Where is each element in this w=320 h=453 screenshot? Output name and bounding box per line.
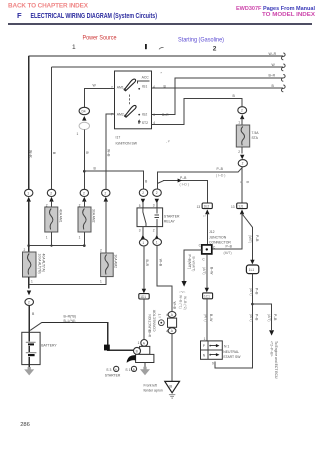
svg-text:1: 1 [77,132,79,136]
AM2 feed column [106,114,115,189]
svg-text:STARTER: STARTER [105,374,121,378]
svg-text:NEUTRAL: NEUTRAL [223,350,239,354]
battery feed wire down [28,284,30,288]
svg-text:<*2>: <*2> [179,290,186,294]
connector arrow into circle [240,115,244,120]
connector arrows up below circles [141,199,145,204]
wire end squiggle B-R [282,75,286,82]
svg-text:13: 13 [231,205,235,209]
svg-text:BACK TO CHAPTER INDEX: BACK TO CHAPTER INDEX [8,2,89,9]
wire to body ground [171,334,173,382]
svg-text:W–B: W–B [173,302,177,310]
connector box 1L1 [246,265,258,274]
connector arrow down [250,260,254,265]
connector box IE2 on P-B branch [202,203,212,209]
connector arrow down into circle [240,155,244,160]
pin 2 below STA fuse [241,147,243,154]
relay coil symbol [155,208,159,227]
svg-text:B–W: B–W [209,314,213,322]
fuse 30A AM2 [101,253,114,277]
svg-text:BATTERY: BATTERY [41,343,57,347]
connector arrow between pair [82,116,86,121]
connector circle 2 above STA fuse [238,107,247,114]
AM1 feed wire W to ignition [84,89,114,108]
svg-text:1: 1 [100,280,102,284]
ignition switch I17 block [115,71,152,129]
connector circle relay contact [139,189,147,196]
svg-text:2: 2 [24,248,26,252]
svg-text:B–R: B–R [269,74,276,78]
starter motor body [136,354,154,362]
svg-text:(A/T): (A/T) [267,314,271,322]
mechanical link dashed [129,95,131,106]
svg-text:( I–D ): ( I–D ) [180,183,189,187]
svg-text:1: 1 [204,337,206,341]
svg-text:ACC: ACC [142,75,150,79]
starter terminal B circle [134,347,141,354]
svg-text:1: 1 [46,236,48,240]
circle with dot junction [158,320,164,326]
wire end squiggle W [282,64,286,71]
wire B from ST2 to STA fuse [152,99,242,125]
svg-text:2: 2 [142,191,144,195]
junction dot fusebus left [27,244,30,247]
svg-text:A: A [115,367,117,371]
wire relay coil to ground net W-B [157,246,172,312]
wire STA to relay coil [238,167,243,172]
battery plates [26,341,36,343]
svg-text:IGNITION SW: IGNITION SW [116,141,138,145]
svg-text:6: 6 [153,113,155,117]
connector box IJ1 [237,203,248,209]
svg-text:TO MODEL INDEX: TO MODEL INDEX [262,12,315,18]
svg-text:1: 1 [238,121,240,125]
svg-text:3: 3 [239,181,243,183]
connector circle pair lower (faint) [79,122,89,129]
terminal arrow left branch [182,281,187,287]
pin 1 below fuse [51,232,53,246]
svg-text:JUNCTION: JUNCTION [209,235,227,239]
svg-text:2: 2 [153,229,155,233]
svg-text:B: B [136,349,138,353]
ACC contact bracket [138,81,150,84]
splice black square [104,345,110,351]
wire relay contact feed [84,171,143,189]
wire left branch A/T out [184,250,202,282]
svg-text:(M/T): (M/T) [248,235,252,243]
connector arrows down into circles [141,235,145,240]
svg-text:P–B: P–B [180,176,187,180]
battery box [22,332,40,364]
connector arrow up into circle [27,197,31,202]
pin 1 below fuse [83,232,85,246]
battery ground arrow [28,365,30,368]
contact IG2 pin 6 [138,114,140,116]
svg-text:4: 4 [166,330,168,334]
starter solenoid box [140,346,150,354]
svg-text:RELAY: RELAY [164,219,176,223]
svg-text:W–R: W–R [269,52,277,56]
svg-text:S 1: S 1 [125,368,130,372]
svg-text:STA: STA [252,136,259,140]
battery positive spine wire W-R [28,56,30,189]
junction dot ECU branch [251,303,254,306]
svg-text:fender apron: fender apron [144,388,163,392]
svg-text:(M/T): (M/T) [224,251,232,255]
fuse 7.5A STA [236,125,249,147]
connector arrow down [205,288,209,293]
connector circle 1 right [153,239,162,246]
svg-text:2: 2 [83,191,85,195]
svg-text:W–B (*2): W–B (*2) [183,296,187,310]
switch lever AM2 [125,105,136,117]
branch wire to junction J12 path [157,181,163,184]
connector arrow up [82,197,86,202]
svg-text:( I–D ): ( I–D ) [216,174,225,178]
svg-text:W–R: W–R [29,150,33,158]
svg-text:40A ALT(*A): 40A ALT(*A) [41,254,45,272]
wire A/T diagonal to IL1 [243,215,253,228]
connector circle relay coil [153,189,162,196]
svg-text:B–R(*B): B–R(*B) [64,314,76,318]
relay pin 2 bottom [156,227,158,236]
wire branch to ECU [252,304,271,330]
svg-text:5: 5 [139,204,141,208]
svg-text:2: 2 [241,109,243,113]
wire M/T branch into J12 [212,213,242,249]
svg-text:B–W: B–W [209,267,213,275]
svg-text:S 3: S 3 [106,368,111,372]
title underline rule [8,23,312,25]
wire end squiggle B [282,85,286,92]
svg-text:2: 2 [238,150,240,154]
connector arrow up [104,197,108,202]
connector arrow up below box [240,209,244,214]
svg-text:AM2: AM2 [117,113,124,117]
svg-text:Power Source: Power Source [83,36,118,42]
svg-text:ST2: ST2 [142,121,148,125]
ground triangle IB front left fender apron [165,381,180,392]
svg-text:1D1: 1D1 [140,295,146,299]
contact ST2 pin 4 [138,120,140,124]
svg-text:30A AM2: 30A AM2 [92,209,96,223]
svg-text:P–B: P–B [255,314,259,321]
wire down to relay junction [83,130,85,190]
svg-text:1C1: 1C1 [204,295,210,299]
svg-text:AM1: AM1 [117,85,124,89]
svg-text:3: 3 [139,229,141,233]
svg-text:1: 1 [202,215,206,217]
pin 1 below fuse 100A [28,277,30,284]
svg-text:P–B: P–B [273,314,277,321]
svg-text:B–R: B–R [162,113,169,117]
svg-text:1: 1 [31,280,33,284]
svg-text:I17: I17 [116,135,121,139]
wire W-R battery bus top [29,55,283,57]
svg-text:F: F [17,11,22,20]
junction connector body [168,318,177,327]
svg-text:1E2: 1E2 [204,204,210,208]
svg-text:IG2: IG2 [142,113,148,117]
connector circle 2 [102,189,110,196]
svg-text:2: 2 [242,162,244,166]
svg-text:CONNECTOR: CONNECTOR [153,309,157,331]
svg-text:1: 1 [79,236,81,240]
svg-text:JUNCTION: JUNCTION [148,314,152,332]
svg-text:100A ALT(*B): 100A ALT(*B) [37,254,41,274]
connector circle 1 on spine [25,189,33,196]
wire fuse bottom bus to AM2 fuse [29,277,106,284]
svg-text:1: 1 [156,241,158,245]
neutral start switch N1 box [201,341,223,359]
svg-text:<*2–P–B>: <*2–P–B> [269,341,273,356]
svg-text:IB: IB [169,384,172,388]
svg-text:ELECTRICAL WIRING DIAGRAM (Sys: ELECTRICAL WIRING DIAGRAM (System Circui… [31,13,158,20]
ground bars below triangle [169,395,175,399]
junction connector J12 square [202,245,212,254]
svg-text:B: B [133,367,135,371]
svg-text:Front left: Front left [144,383,157,387]
svg-text:13: 13 [197,205,201,209]
wire end squiggle W-R [282,53,286,60]
svg-text:P–B: P–B [217,167,224,171]
svg-text:3: 3 [153,204,155,208]
svg-text:, ≠: , ≠ [166,140,170,144]
junction connector IJ7 circle A upper [168,312,176,318]
wire to starter terminal A [143,299,145,340]
junction connector circle A lower [168,328,176,334]
fuse 30A AM2 (mid) [78,207,91,232]
junction dot fusebus mid [50,245,52,247]
svg-text:(A/T): (A/T) [249,288,253,296]
junction dot relay feed [83,170,86,173]
svg-text:1L1: 1L1 [249,268,255,272]
svg-text:P: P [203,344,205,348]
svg-text:2: 2 [105,191,107,195]
svg-text:W–B: W–B [158,259,162,267]
svg-text:286: 286 [20,422,30,428]
svg-text:START SW: START SW [223,355,241,359]
direction arrow on branch [178,179,182,183]
starter ground [144,363,146,368]
switch lever AM1 [124,79,135,91]
svg-text:B–L(*A): B–L(*A) [64,319,76,323]
svg-text:N 1: N 1 [224,344,229,348]
page fold mark I [145,44,147,49]
connector arrow up [49,197,53,202]
connector circle pair D4 upper [79,107,89,114]
svg-text:W–B: W–B [106,149,110,157]
wire B from IG1 [152,87,283,89]
svg-text:9: 9 [212,362,214,366]
wire down to AM2 fuse [105,201,107,254]
battery wire through [28,332,30,364]
svg-text:1J1: 1J1 [238,204,243,208]
svg-text:B–R: B–R [145,260,149,267]
wire W from AM1 fuse [52,66,284,68]
arrow to ECU [269,330,274,335]
svg-text:30A AM2: 30A AM2 [114,255,118,269]
relay contact arm [143,208,146,227]
svg-text:STARTER: STARTER [164,215,180,219]
svg-text:(A/T): (A/T) [249,314,253,322]
svg-text:40A AM1: 40A AM1 [59,209,63,223]
connector circle 2 [80,189,88,196]
svg-text:D4: D4 [82,110,86,114]
relay pin 3 bottom [142,227,144,236]
pin 2 above fuse 100A [28,246,30,252]
relay pin 3 [156,202,158,208]
battery branch wire to starter cable [30,323,41,331]
starter relay box [137,208,163,227]
svg-text:To Engine and ECT ECU: To Engine and ECT ECU [274,341,278,379]
wire J12 down to IC1 [206,254,208,288]
svg-text:2: 2 [213,45,217,52]
relay pin 5 [142,202,144,208]
svg-text:2: 2 [50,191,52,195]
svg-text:(A/T): (A/T) [202,267,206,275]
svg-text:B–W(A/T): B–W(A/T) [192,257,196,272]
wire relay contact to starter solenoid [143,246,145,289]
connector arrow up below box [205,209,209,214]
wire B-R from IG2 [152,78,283,114]
svg-text:2: 2 [28,301,30,305]
fuse bus wire [29,245,85,247]
contact IG1 pin 4 [138,88,140,90]
AM1 fuse column wire [51,67,53,189]
connector circle 1 left [139,239,148,246]
connector arrow down [142,289,146,294]
fuse 100A ALT [23,252,37,277]
starter terminal A circle [141,340,148,347]
connector box IC1 [203,293,213,299]
svg-text:1: 1 [142,241,144,245]
svg-text:J12: J12 [209,230,215,234]
svg-text:1: 1 [138,341,140,345]
svg-text:4: 4 [153,85,155,89]
svg-text:1: 1 [72,44,76,51]
svg-text:P–B: P–B [254,288,258,295]
connector box 1D1 [139,294,149,299]
svg-text:P–B(M/T): P–B(M/T) [188,255,192,270]
svg-text:P–B: P–B [255,235,259,242]
fuse 40A AM1 [45,207,58,232]
wire STA output down [241,167,243,203]
svg-text:2: 2 [156,191,158,195]
svg-text:IG1: IG1 [142,85,148,89]
wire IC1 to neutral start sw [206,299,208,341]
connector circle 2 [47,189,55,196]
svg-text:W–B (*1): W–B (*1) [179,295,183,309]
svg-text:Starting (Gasoline): Starting (Gasoline) [178,38,224,44]
connector circle 2 below STA fuse [238,160,247,167]
svg-text:7.5A: 7.5A [252,131,260,135]
page fold mark tilde [159,48,164,50]
svg-text:P–B: P–B [226,245,233,249]
contact arrows [210,345,217,347]
starter motor brush arc [127,355,136,363]
wire down to junction [215,274,253,368]
svg-text:(A/T): (A/T) [203,314,207,322]
svg-text:1: 1 [27,191,29,195]
svg-text:4: 4 [166,313,168,317]
connector circle 2 battery [25,299,34,306]
svg-text:2: 2 [100,249,102,253]
svg-text:I 7: I 7 [158,314,162,318]
connector arrow down into circle [27,291,31,296]
